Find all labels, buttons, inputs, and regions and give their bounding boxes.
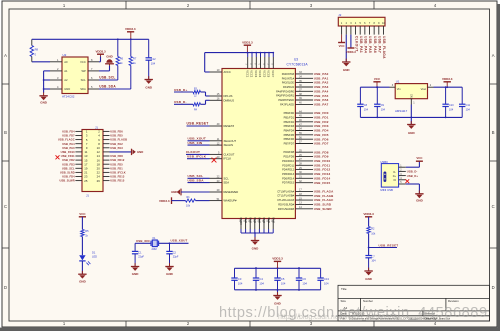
U3 pin 30 (PD5/FD13) [295,173,313,175]
USB0 pin 3 [399,175,406,177]
wire RESERVED [181,191,210,193]
svg-text:USB_FD1: USB_FD1 [110,166,123,170]
U3 pin 14 (RDY1/SLWR#) [295,208,313,210]
svg-text:USB_FLAGA: USB_FLAGA [382,36,386,59]
wire regulator ground [410,105,412,118]
svg-text:VDD3.3: VDD3.3 [125,27,136,31]
svg-text:A0: A0 [64,60,68,64]
svg-text:104: 104 [259,281,264,285]
svg-text:D+: D+ [393,175,397,178]
svg-text:USB_D-: USB_D- [174,100,187,104]
svg-text:SCL: SCL [224,176,230,180]
resistor R5 1k [81,229,84,236]
svg-text:VDD3.3: VDD3.3 [442,77,453,81]
wire A0 to R8 [32,61,50,63]
svg-text:104: 104 [466,108,471,111]
connector J1 26-pin header [82,125,103,197]
svg-text:26: 26 [97,179,101,183]
J1 pin 24 [103,176,110,178]
svg-text:DMINUS: DMINUS [224,98,235,102]
svg-text:USB_FD15: USB_FD15 [314,181,331,185]
J1 pin 20 [103,167,110,169]
U3 pin 18 (CTL1/FLAGB#) [295,195,313,197]
svg-text:C: C [492,204,495,209]
U3 pin GND [258,219,260,230]
svg-text:AT24C02: AT24C02 [62,95,75,99]
J1 pin 19 [75,167,82,169]
U2 pin 3 (A2) [50,79,62,81]
U3 pin GND [245,219,247,230]
ground (RESERVED pin) [180,189,182,196]
U3 pin 25 (PD0/FD8) [295,151,313,153]
ground for U2 address pins [43,92,45,95]
J1 pin 3 [75,135,82,137]
J1 pin 13 [75,155,82,157]
U3 pin GND [249,219,251,230]
wire R5 to D1 [81,237,83,256]
svg-text:USB_FD10: USB_FD10 [314,159,331,163]
svg-text:PD1/FD9: PD1/FD9 [284,155,295,159]
capacitor C9 104 [376,87,378,104]
svg-text:PD7/FD15: PD7/FD15 [282,181,294,185]
USB0 pin 2 [399,170,406,172]
J1 pin 4 [103,135,110,137]
J1 pin 21 [75,171,82,173]
U3 pin 11 (XEALOUT) [210,140,223,142]
svg-text:CTL0/FLAGA#: CTL0/FLAGA# [277,189,294,193]
U3 pin 47 (PB3/FD3) [295,125,313,127]
svg-text:USB_PA4: USB_PA4 [314,89,329,93]
svg-text:https://blog.csdn.net/weixin_4: https://blog.csdn.net/weixin_44586889 [278,314,397,321]
svg-text:U2: U2 [63,53,67,57]
svg-text:VCC7: VCC7 [271,70,275,77]
svg-text:RDY1/SLWR#: RDY1/SLWR# [278,207,295,211]
capacitor C3 104 [234,268,236,278]
J1 pin 5 [75,139,82,141]
svg-text:B: B [4,130,7,135]
svg-text:D: D [4,285,7,290]
U3 pin 26 (PD1/FD9) [295,156,313,158]
svg-text:USB_FD2: USB_FD2 [62,158,75,162]
svg-text:VCC4: VCC4 [258,70,262,77]
svg-text:USB0: USB0 [380,160,388,164]
wire Vout rail [434,86,463,88]
U3 pin 17 (CTL0/FLAGA#) [295,190,313,192]
svg-text:VCC: VCC [374,77,381,81]
USB0 pin 4 [399,179,406,181]
ground (cap bank) [277,290,279,296]
svg-text:22pF: 22pF [138,256,144,259]
ground (C12) [148,76,150,79]
svg-text:USB_PA2: USB_PA2 [314,81,329,85]
svg-text:PB4/FD4: PB4/FD4 [284,129,295,133]
svg-text:USB_XOUT: USB_XOUT [171,239,188,243]
svg-text:GND: GND [137,150,143,154]
svg-text:VCC5: VCC5 [263,70,267,77]
svg-text:Number: Number [363,299,373,303]
svg-text:USB_PA0: USB_PA0 [314,72,329,76]
svg-text:USB_FD11: USB_FD11 [61,154,75,158]
svg-text:USB_SLRD: USB_SLRD [314,203,332,207]
svg-text:GND: GND [343,68,351,72]
U3 pin 44 (PB0/FD0) [295,112,313,114]
svg-text:PD6/FD14: PD6/FD14 [282,176,294,180]
U3 pin GND [268,219,270,230]
resistor R6 1k [117,39,119,56]
svg-text:PA7/FLAGD: PA7/FLAGD [280,102,294,106]
U3 pin 29 (RESERVED) [210,191,223,193]
J1 pin 7 [75,143,82,145]
U3 pin 40 (PA7/FLAGD) [295,103,313,105]
U3 pin 28 (PD3/FD11) [295,164,313,166]
U3 pin 32 (PD7/FD15) [295,182,313,184]
svg-text:USB_PA4: USB_PA4 [364,36,368,53]
svg-text:USB_PA5: USB_PA5 [368,36,372,53]
svg-text:USB_PA2: USB_PA2 [110,142,123,146]
J2 pin 1 [341,26,343,35]
J1 pin 11 [75,151,82,153]
svg-text:USB_PA6: USB_PA6 [373,36,377,53]
svg-text:J2: J2 [338,13,341,17]
capacitor C13 104 [320,268,322,278]
svg-text:PD4/FD12: PD4/FD12 [282,168,294,172]
U2 pin 7 (WP) [88,70,99,72]
J1 pin 2 [103,130,110,132]
svg-text:PB7/FD7: PB7/FD7 [284,142,295,146]
svg-text:USB_FLAGC: USB_FLAGC [58,138,75,142]
svg-text:104: 104 [449,108,454,111]
U3 pin 5 (CLKOUT) [210,153,223,155]
U3 pin 33 (PA0/INT0#) [295,73,313,75]
ground (reset) [368,268,370,271]
J1 pin 22 [103,171,110,173]
wire R2 to junction [368,234,370,256]
wire D1 to GND [81,261,83,274]
svg-text:GND: GND [64,87,70,91]
svg-text:Title: Title [341,287,347,291]
svg-text:25: 25 [84,179,88,183]
J2 pin 5 [359,26,361,35]
svg-text:USB_FD5: USB_FD5 [314,133,329,137]
U3 pin 35 (PA2/SLOE) [295,82,313,84]
svg-text:USB_D+: USB_D+ [407,174,419,178]
J2 pin 3 [350,26,352,35]
svg-text:PB3/FD3: PB3/FD3 [284,124,295,128]
svg-text:VCC6: VCC6 [267,70,271,77]
svg-text:XEALIN: XEALIN [224,143,234,147]
svg-text:PD3/FD11: PD3/FD11 [282,163,294,167]
svg-text:VCC: VCC [339,44,345,48]
U3 pin GND [272,219,274,230]
svg-text:Vout: Vout [421,87,427,91]
no-ERC marker on IFCLK [212,158,217,163]
svg-text:RDY0/SLRD#: RDY0/SLRD# [278,202,294,206]
svg-text:USB_PA7: USB_PA7 [378,36,382,53]
ground (LED) [81,271,83,274]
wire decoupling bank top rail [235,267,321,269]
svg-text:GND: GND [171,190,177,194]
svg-text:VDD3.3: VDD3.3 [363,212,374,216]
svg-text:USB_FD5: USB_FD5 [110,134,123,138]
svg-text:SDA: SDA [80,87,86,91]
svg-text:PA2/SLOE: PA2/SLOE [282,81,294,85]
wire crystal top [135,242,151,244]
svg-text:C: C [4,204,7,209]
svg-text:USB_XIN: USB_XIN [136,239,150,243]
resistor R2 10k [367,227,370,234]
svg-text:104: 104 [281,281,286,285]
svg-text:C13: C13 [324,277,329,281]
wire J1 pin12 to GND [110,151,132,153]
svg-text:PD0/FD8: PD0/FD8 [284,150,295,154]
ground (U2 WP pin) [105,63,114,65]
svg-text:104: 104 [381,108,386,111]
svg-text:C5: C5 [281,277,285,281]
U3 pin 20 (IFCLK) [210,158,223,160]
svg-text:USB_PA0: USB_PA0 [62,146,75,150]
svg-text:CY7C68013A: CY7C68013A [287,62,309,66]
svg-text:USB_FD1: USB_FD1 [314,116,329,120]
capacitor C2 22pF [166,250,172,252]
U2 pin 2 (A1) [50,70,62,72]
no-ERC marker (J1) [56,155,60,159]
svg-text:USB_XIN: USB_XIN [188,141,203,145]
svg-text:WP: WP [81,69,86,73]
svg-text:RESERVED: RESERVED [224,190,239,194]
J1 pin 6 [103,139,110,141]
wire Vin rail [360,86,389,88]
J2 pin 7 [369,26,371,35]
IC U1 AMS1117 [395,79,428,113]
J2 pin 6 [364,26,366,35]
USB0 pin 1 [399,166,406,168]
U3 pin VCC6 [268,53,270,57]
resistor R4 22 [193,103,201,106]
svg-text:CTL1/FLAGB#: CTL1/FLAGB# [277,194,294,198]
svg-text:USB_SLRD: USB_SLRD [60,171,75,175]
svg-text:VDD3.3: VDD3.3 [95,50,106,54]
svg-text:GND: GND [252,247,260,251]
svg-text:PA6/PKTEND: PA6/PKTEND [278,98,294,102]
svg-text:GND: GND [416,198,424,202]
IC U3 CY7C68013A [222,57,308,218]
capacitor C7 104 [365,255,371,257]
svg-text:PB2/FD2: PB2/FD2 [284,120,295,124]
U3 pin 37 (PA4/FIFOADR0) [295,90,313,92]
svg-text:GND: GND [40,100,48,104]
svg-text:USB_FD7: USB_FD7 [314,142,329,146]
power VCC (J2 pin1) [341,35,343,43]
svg-text:MINI USB: MINI USB [380,188,393,192]
svg-text:GND: GND [166,272,174,276]
svg-text:PB6/FD6: PB6/FD6 [284,137,295,141]
wire top rail EEPROM pullups [32,38,149,40]
wire J2 pin2 to GND [345,35,347,62]
U2 pin 1 (A0) [50,61,62,63]
U3 pin 51 (WAKEUP#) [210,200,223,202]
svg-text:PB0/FD0: PB0/FD0 [284,111,295,115]
svg-text:VCC2: VCC2 [250,70,254,77]
wire U2 VCC [99,61,101,63]
svg-text:USB_PA3: USB_PA3 [110,146,123,150]
U3 pin 27 (PD2/FD10) [295,160,313,162]
U3 pin 10 (AVCC) [210,71,223,73]
U3 pin 12 (XEALIN) [210,144,223,146]
crystal X1 24M [152,240,157,247]
svg-text:USB_D+: USB_D+ [174,88,188,92]
svg-text:USB_FD4: USB_FD4 [62,175,75,179]
svg-text:PA4/FIFOADR0: PA4/FIFOADR0 [276,89,295,93]
USB0 pin 5 [399,183,406,185]
svg-text:VCC: VCC [80,60,86,64]
svg-text:USB_D-: USB_D- [407,170,418,174]
J1 pin 10 [103,147,110,149]
svg-text:USB_PA1: USB_PA1 [359,36,363,53]
svg-text:A: A [492,53,495,58]
U3 pin VCC7 [272,53,274,57]
svg-text:PA0/INT0#: PA0/INT0# [282,72,295,76]
svg-text:USB_FD12: USB_FD12 [110,158,125,162]
svg-text:C3: C3 [238,277,242,281]
IC U2 AT24C02 EEPROM [62,53,88,98]
svg-text:PB5/FD5: PB5/FD5 [284,133,295,137]
ground (C1) [134,263,136,266]
J1 pin 26 [103,180,110,182]
wire decoupling bank bottom rail [235,289,321,291]
J2 pin 8 [373,26,375,35]
svg-text:R6: R6 [120,56,124,60]
svg-text:104: 104 [151,62,156,66]
U3 pin 49 (RESET#) [210,125,223,127]
U3 pin VCC1 [247,53,249,57]
U3 pin VCC5 [264,53,266,57]
wire U3 ground bus [241,232,273,234]
J2 pin 2 [345,26,347,35]
U3 pin GND [263,219,265,230]
svg-text:USB_FLAGB: USB_FLAGB [110,138,127,142]
svg-text:J1: J1 [86,194,89,198]
svg-text:GND: GND [145,86,153,90]
U3 pin 29 (PD4/FD12) [295,169,313,171]
LED D1 [79,255,85,260]
svg-text:104: 104 [302,281,307,285]
svg-text:AMS1117: AMS1117 [395,109,408,113]
J2 pin 9 [378,26,380,35]
resistor R1 10k [172,200,186,202]
svg-text:104: 104 [364,108,369,111]
wire A1 A2 GND bus [44,70,50,72]
wire VDD3.3 to R2 [368,217,370,227]
svg-text:USB_IFCLK: USB_IFCLK [110,171,125,175]
svg-text:A2: A2 [64,78,68,82]
svg-text:D1: D1 [92,251,96,255]
svg-text:DPLUS: DPLUS [224,94,233,98]
U3 pin 36 (PA3/WU2) [295,86,313,88]
J1 pin 14 [103,155,110,157]
svg-text:104: 104 [371,260,376,263]
svg-text:USB_FD14: USB_FD14 [314,176,331,180]
U2 pin 6 (SCL) [88,79,99,81]
connector J2 10-pin header [338,13,385,26]
connector USB0 MINI USB [380,160,398,192]
ground (J1 pin 12, sideways) [131,149,133,155]
svg-text:USB_FD8: USB_FD8 [110,154,123,158]
svg-text:VDD3.3: VDD3.3 [159,199,170,203]
svg-text:U1: U1 [396,79,400,83]
svg-text:ID: ID [394,179,397,182]
resistor R8 [31,39,33,45]
svg-text:24M: 24M [152,247,157,251]
svg-text:Size: Size [341,299,347,303]
svg-text:22pF: 22pF [173,256,179,259]
svg-text:PD5/FD13: PD5/FD13 [282,172,294,176]
ground (J2 pin2) [345,59,347,62]
U3 pin 23 (SDA) [210,182,223,184]
wire USB0 GND [406,183,420,185]
svg-text:PB1/FD1: PB1/FD1 [284,115,295,119]
U3 pin VCC3 [255,53,257,57]
svg-text:USB_SCL: USB_SCL [62,166,75,170]
U3 pin 57 (PB7/FD7) [295,143,313,145]
svg-text:USB_SDA: USB_SDA [188,179,205,183]
net label USB_RESET + wire (reset) [369,247,397,249]
capacitor C5 104 [277,268,279,278]
svg-text:CTL2/FLAGC#: CTL2/FLAGC# [277,198,294,202]
U3 pin 45 (PB1/FD1) [295,116,313,118]
ground (U1) [410,117,412,124]
U2 pin 5 (SDA) [88,88,99,90]
U3 pin 15 (DPLUS) [210,95,223,97]
capacitor C11 104 [461,87,463,104]
svg-text:SDA: SDA [224,181,230,185]
J1 pin 1 [75,130,82,132]
U3 pin 31 (PD6/FD14) [295,177,313,179]
svg-text:USB_FD10: USB_FD10 [61,150,76,154]
capacitor C12 104 [148,39,150,58]
U3 pin 16 (DMINUS) [210,99,223,101]
J1 pin 8 [103,143,110,145]
svg-text:VCC3: VCC3 [254,70,258,77]
svg-text:PA1/INT1#: PA1/INT1# [282,76,295,80]
J1 pin 18 [103,163,110,165]
svg-text:D-: D- [393,171,396,174]
svg-text:B: B [492,130,495,135]
svg-text:USB_FD6: USB_FD6 [110,130,123,134]
svg-text:USB_FD5: USB_FD5 [110,162,123,166]
svg-text:USB_FD4: USB_FD4 [62,130,75,134]
svg-text:PD2/FD10: PD2/FD10 [282,159,294,163]
U3 pin 56 (PB6/FD6) [295,138,313,140]
svg-text:USB_FD12: USB_FD12 [314,168,331,172]
svg-text:GND: GND [408,131,416,135]
svg-text:R8: R8 [35,48,39,52]
wire R4 to DMINUS [201,103,206,105]
U3 pin 19 (CTL2/FLAGC#) [295,199,313,201]
no-ERC marker (USB0 ID pin) [405,179,409,183]
wire R3 to DPLUS [201,91,206,93]
U3 pin GND [254,219,256,230]
svg-text:Revision: Revision [448,299,459,303]
svg-text:104: 104 [238,281,243,285]
capacitor C4 104 [255,268,257,278]
U3 pin 54 (PB4/FD4) [295,130,313,132]
U3 pin VCC2 [251,53,253,57]
capacitor C6 104 [298,268,300,278]
J1 pin 25 [75,180,82,182]
J1 pin 23 [75,176,82,178]
svg-text:USB_FD7: USB_FD7 [62,134,75,138]
svg-text:VCC: VCC [79,212,86,216]
